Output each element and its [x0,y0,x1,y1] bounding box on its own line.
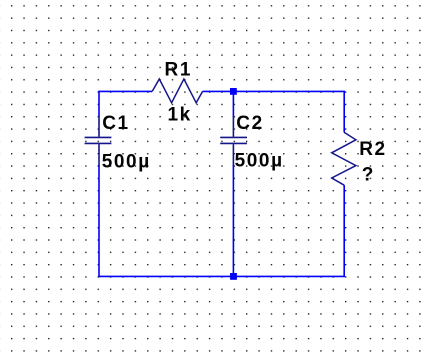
svg-text:500µ: 500µ [235,150,284,171]
wire right vertical lower [343,185,345,277]
wire top right segment [203,90,345,92]
svg-text:?: ? [362,165,375,186]
svg-text:C2: C2 [236,113,263,134]
resistor R1 [152,79,202,103]
wire left vertical lower [98,165,100,277]
node junction top [230,88,237,95]
wire middle vertical lower [232,165,234,276]
wire middle vertical upper [232,91,234,116]
node junction bottom [230,273,237,280]
svg-text:R2: R2 [359,139,387,160]
resistor R2 [332,132,356,185]
capacitor C1 [85,116,112,166]
wire right vertical upper [343,91,345,133]
svg-text:C1: C1 [102,113,130,134]
wire top left segment [99,90,152,92]
svg-text:R1: R1 [165,60,193,81]
wire left vertical upper [98,91,100,117]
wire bottom [99,275,344,277]
svg-text:500µ: 500µ [102,151,151,172]
capacitor C2 [220,116,247,166]
svg-text:1k: 1k [168,104,192,125]
